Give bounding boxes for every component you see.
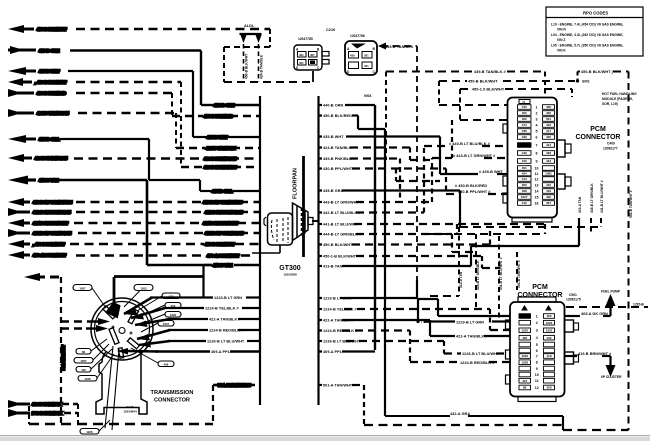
svg-text:409-A PPL: 409-A PPL [211, 350, 231, 354]
svg-text:# 450-B BLK/RED: # 450-B BLK/RED [455, 184, 487, 188]
svg-text:430-B BLK/RED: 430-B BLK/RED [37, 92, 66, 96]
svg-text:433: 433 [169, 295, 174, 299]
RPO CODES box [546, 7, 643, 56]
svg-text:5: 5 [536, 129, 538, 133]
svg-text:450: 450 [522, 183, 527, 187]
right bus [317, 96, 319, 405]
svg-text:420: 420 [546, 386, 551, 390]
wire 444-B LT GRN/BLK [8, 229, 260, 237]
svg-text:351: 351 [364, 54, 369, 58]
svg-text:MODULE (PAGE 99,: MODULE (PAGE 99, [602, 97, 633, 101]
svg-text:435-B WHT: 435-B WHT [207, 136, 228, 140]
svg-text:422-A TAN/BLK #: 422-A TAN/BLK # [323, 319, 355, 323]
svg-text:424-B TAN/BLK: 424-B TAN/BLK [323, 146, 352, 150]
svg-text:422-A TAN/BLK #: 422-A TAN/BLK # [456, 335, 488, 339]
svg-text:444: 444 [546, 143, 551, 147]
svg-text:15: 15 [535, 195, 539, 199]
svg-text:12: 12 [535, 177, 539, 181]
wire 435-B WHT [8, 67, 260, 137]
svg-text:439-B TAN/BLK #: 439-B TAN/BLK # [474, 70, 507, 74]
svg-text:1222: 1222 [546, 329, 553, 333]
svg-text:432-A GRA: 432-A GRA [450, 412, 470, 416]
svg-text:GT300: GT300 [279, 265, 301, 272]
svg-text:2: 2 [536, 321, 538, 325]
svg-text:451: 451 [522, 166, 527, 170]
svg-text:413-B TAN: 413-B TAN [39, 179, 59, 183]
svg-text:, 430-B PPL/WHT: , 430-B PPL/WHT [35, 81, 67, 85]
svg-text:501-B TAN/WHT #: 501-B TAN/WHT # [517, 260, 521, 288]
svg-text:8: 8 [536, 151, 538, 155]
svg-text:7: 7 [536, 354, 538, 358]
wire 442-B LT BLU/BLK right [319, 211, 323, 213]
svg-text:C901: C901 [569, 293, 577, 297]
svg-text:409-A PPL: 409-A PPL [323, 350, 343, 354]
svg-text:466: 466 [164, 363, 169, 367]
svg-text:440-B ORN: 440-B ORN [39, 49, 59, 53]
dashed arrows entering circle from left [61, 318, 110, 332]
svg-text:9004: 9004 [364, 94, 372, 98]
svg-text:12047785: 12047785 [298, 37, 313, 41]
svg-text:451: 451 [364, 64, 369, 68]
501-A right side [319, 385, 629, 430]
svg-text:# 440-B LT BLU/BLK #: # 440-B LT BLU/BLK # [449, 142, 491, 146]
svg-text:474: 474 [522, 123, 527, 127]
right bus wires group [312, 105, 579, 416]
svg-text:400: 400 [546, 111, 551, 115]
svg-text:501-A TAN/WHT #: 501-A TAN/WHT # [218, 384, 251, 388]
svg-text:5: 5 [536, 343, 538, 347]
svg-text:• S004: • S004 [421, 320, 431, 324]
svg-text:467: 467 [310, 53, 315, 57]
fuel pump [565, 304, 611, 316]
svg-text:11: 11 [535, 379, 539, 383]
432-A GRA wire [385, 416, 563, 430]
svg-text:FLOORPAN: FLOORPAN [293, 168, 299, 199]
wire 443-B LT GRN/WHT [8, 198, 260, 206]
connector U1 12047785 [294, 37, 329, 70]
svg-text:9: 9 [536, 367, 538, 371]
svg-text:443: 443 [546, 159, 551, 163]
svg-text:450-B BLK/WHT: 450-B BLK/WHT [468, 80, 498, 84]
svg-text:S001: S001 [582, 79, 590, 83]
svg-text:435-B GRA: 435-B GRA [39, 138, 59, 142]
svg-text:416: 416 [546, 123, 551, 127]
svg-text:12082177: 12082177 [603, 147, 618, 151]
svg-text:427: 427 [522, 379, 527, 383]
svg-text:412: 412 [522, 201, 527, 205]
svg-text:435-B WHT: 435-B WHT [323, 135, 344, 139]
svg-text:440: 440 [522, 105, 527, 109]
svg-text:442-B LT BLU/BLK #: 442-B LT BLU/BLK # [205, 211, 243, 215]
svg-text:1226-B LT BLU/WHT: 1226-B LT BLU/WHT [462, 352, 500, 356]
svg-text:1226: 1226 [86, 430, 93, 434]
svg-text:FUEL PUMP: FUEL PUMP [601, 290, 621, 294]
svg-text:10: 10 [535, 373, 539, 377]
wire 450-B BLK/WHT top [8, 25, 270, 82]
wire 450-1.0 BLK/WHT right [319, 255, 323, 257]
svg-text:443: 443 [522, 159, 527, 163]
svg-text:1057: 1057 [79, 287, 86, 291]
svg-text:# 435-B WHT: # 435-B WHT [479, 170, 503, 174]
svg-text:450-B BLK/WHT: 450-B BLK/WHT [245, 54, 249, 79]
vertical trunk x375 [374, 105, 376, 350]
svg-text:422-A TAN/BLK #: 422-A TAN/BLK # [209, 318, 241, 322]
svg-text:465-A DK GRN: 465-A DK GRN [581, 312, 608, 316]
svg-text:435: 435 [546, 135, 551, 139]
GT300 connector [252, 203, 319, 253]
svg-text:TRANSMISSION: TRANSMISSION [151, 390, 194, 396]
wires into PCM2 [319, 280, 511, 362]
svg-text:450-B BLK/WHT |: 450-B BLK/WHT | [581, 70, 613, 74]
svg-text:444-B LT GRN/BLK #: 444-B LT GRN/BLK # [323, 233, 362, 237]
svg-text:417: 417 [546, 129, 551, 133]
svg-text:419: 419 [546, 189, 551, 193]
svg-text:414: 414 [522, 177, 527, 181]
svg-text:1027: 1027 [521, 195, 528, 199]
svg-text:430-B PPL/WHT #: 430-B PPL/WHT # [323, 167, 356, 171]
wire y82 dashed under ALDL to connector C210 [224, 81, 313, 83]
svg-text:408: 408 [522, 189, 527, 193]
svg-text:450-B BLK/RED: 450-B BLK/RED [323, 114, 352, 118]
svg-text:452: 452 [522, 117, 527, 121]
svg-text:430-B PPL/WHT #: 430-B PPL/WHT # [458, 190, 491, 194]
transmission wires right [150, 298, 260, 352]
svg-text:501: 501 [546, 117, 551, 121]
svg-text:443-B LT GRN/WHT #: 443-B LT GRN/WHT # [33, 201, 73, 205]
svg-text:CONNECTOR: CONNECTOR [154, 398, 190, 404]
svg-text:444-B LT GRN/BLK #: 444-B LT GRN/BLK # [205, 232, 244, 236]
svg-text:9: 9 [536, 159, 538, 163]
svg-text:8: 8 [536, 361, 538, 365]
radiating wires with inward arrowheads [117, 298, 170, 355]
svg-text:16: 16 [535, 201, 539, 205]
svg-text:435-B WHT: 435-B WHT [39, 70, 60, 74]
svg-text:419-B LT GRN/BLK: 419-B LT GRN/BLK [590, 183, 594, 213]
svg-text:2: 2 [536, 111, 538, 115]
svg-text:1223-B LT GRN: 1223-B LT GRN [323, 297, 351, 301]
svg-text:, 450-B BLK/WHT: , 450-B BLK/WHT [33, 243, 65, 247]
svg-text:1020: 1020 [546, 321, 553, 325]
wire 440-B ORN [8, 46, 260, 105]
wire 501-A TAN/WHT left [24, 273, 61, 424]
svg-text:C210: C210 [326, 28, 335, 32]
svg-text:1220-B: 1220-B [633, 303, 644, 307]
svg-text:13: 13 [535, 183, 539, 187]
svg-text:6: 6 [536, 135, 538, 139]
svg-text:435-B GRA: 435-B GRA [212, 190, 232, 194]
svg-text:424-B TAN/BLK: 424-B TAN/BLK [206, 147, 235, 151]
svg-text:C146: C146 [126, 405, 134, 409]
wire 441-B LT BLU/WHT right [312, 220, 319, 222]
svg-text:501-A TAN/WHT #: 501-A TAN/WHT # [323, 384, 356, 388]
svg-text:1053: 1053 [140, 287, 147, 291]
wire 430-B BLK/RED [8, 89, 260, 116]
svg-text:467: 467 [546, 201, 551, 205]
transmission body [96, 352, 147, 414]
wire 430-B PPL/WHT right [319, 167, 323, 169]
ALDL connector [240, 24, 262, 82]
wire 443-B LT GRN/WHT right [319, 201, 323, 203]
wire 439-B PNK/BLK bottom1 [8, 400, 78, 408]
wire 450-1.0 BLK/WHT [8, 251, 252, 259]
svg-text:435-B GRA: 435-B GRA [323, 189, 343, 193]
wires exiting right edge [566, 306, 648, 308]
svg-text:436: 436 [522, 129, 527, 133]
svg-text:I/P CLUSTER: I/P CLUSTER [601, 375, 622, 379]
svg-text:439-B PNK/BLK #: 439-B PNK/BLK # [323, 157, 356, 161]
svg-text:442-B LT BLU/BLK #: 442-B LT BLU/BLK # [33, 211, 71, 215]
svg-text:420: 420 [81, 368, 86, 372]
svg-text:419: 419 [546, 354, 551, 358]
svg-text:424-B TAN/BLK: 424-B TAN/BLK [260, 54, 264, 79]
wire 439-B TAN/BLK top right [386, 71, 473, 73]
svg-text:422: 422 [522, 336, 527, 340]
svg-text:450-1-B BLK/WHT: 450-1-B BLK/WHT [323, 255, 357, 259]
svg-text:1223-B LT GRN: 1223-B LT GRN [456, 320, 484, 324]
svg-text:430-B PPL/WHT #: 430-B PPL/WHT # [204, 166, 237, 170]
svg-text:442-B LT BLU/BLK #: 442-B LT BLU/BLK # [323, 211, 361, 215]
svg-text:450-B BLK/RED: 450-B BLK/RED [204, 115, 233, 119]
svg-text:PCM: PCM [532, 284, 548, 291]
svg-text:441-B LT BLU/WHT: 441-B LT BLU/WHT [33, 222, 69, 226]
svg-text:ALDL: ALDL [244, 24, 255, 28]
svg-text:12034844: 12034844 [123, 410, 137, 414]
svg-text:# 39-B PNK/BLK: # 39-B PNK/BLK [32, 412, 62, 416]
svg-text:419-B LT GRN/BLK: 419-B LT GRN/BLK [476, 260, 480, 290]
wire 439-B PNK/BLK bottom2 [8, 404, 78, 424]
409-A PPL to trunk [342, 350, 375, 352]
wire 435-B GRA [8, 135, 260, 191]
svg-text:450-1.0 BLK/WHT: 450-1.0 BLK/WHT [472, 88, 505, 92]
svg-text:4: 4 [536, 123, 538, 127]
svg-text:413-A TAN: 413-A TAN [578, 196, 582, 213]
svg-text:3: 3 [536, 117, 538, 121]
svg-text:11: 11 [535, 172, 539, 176]
svg-text:CONNECTOR: CONNECTOR [576, 134, 621, 141]
PCM connector 2 (C901) [506, 297, 579, 402]
svg-text:1224-B RED/BLK #: 1224-B RED/BLK # [209, 329, 244, 333]
wire 450-B BLK/WHT top right [439, 80, 467, 82]
svg-text:1226-B LT BLU/WHT: 1226-B LT BLU/WHT [207, 340, 245, 344]
wire 439-B PNK/BLK right [319, 157, 323, 159]
svg-text:PCM: PCM [590, 126, 606, 133]
svg-text:SOR, L19): SOR, L19) [602, 102, 618, 106]
svg-text:436: 436 [546, 105, 551, 109]
svg-text:432: 432 [546, 336, 551, 340]
svg-text:1224-B RED/BLK #: 1224-B RED/BLK # [460, 361, 495, 365]
connector U2 12047786 [345, 34, 377, 75]
svg-text:461: 461 [299, 53, 304, 57]
wire 450-B BLK/WHT to S001 right [578, 71, 581, 73]
svg-text:1: 1 [536, 314, 538, 318]
wire 424-B TAN/BLK [8, 109, 260, 148]
svg-text:439: 439 [522, 135, 527, 139]
wire 450-1.0 BLK/WHT top right [460, 88, 471, 90]
wire 444-B LT GRN/BLK right [319, 233, 323, 235]
svg-text:419-B BRN/WHT #: 419-B BRN/WHT # [578, 352, 612, 356]
svg-text:1: 1 [536, 105, 538, 109]
svg-text:1224-B YEL/BLK #: 1224-B YEL/BLK # [323, 308, 357, 312]
svg-text:L04 - ENGINE, 4.3L (262 CID) V: L04 - ENGINE, 4.3L (262 CID) V6 GAS ENGI… [551, 33, 623, 37]
svg-text:3: 3 [536, 329, 538, 333]
svg-text:450-B BLK/WHT: 450-B BLK/WHT [323, 243, 353, 247]
svg-text:1220: 1220 [521, 329, 528, 333]
svg-text:439-B PNK/BLK: 439-B PNK/BLK [32, 403, 61, 407]
svg-text:4: 4 [536, 336, 538, 340]
svg-text:443-B LT GRN/WHT #: 443-B LT GRN/WHT # [203, 201, 243, 205]
svg-text:HOT FUEL HANDLING: HOT FUEL HANDLING [602, 92, 637, 96]
svg-text:409: 409 [171, 304, 176, 308]
transmission ovals [73, 285, 181, 435]
wire 424-B TAN/BLK right [319, 146, 323, 148]
svg-text:6: 6 [536, 349, 538, 353]
vertical trunk x385 [384, 129, 386, 416]
svg-text:448: 448 [546, 151, 551, 155]
svg-text:415: 415 [546, 183, 551, 187]
svg-text:12082175: 12082175 [566, 298, 581, 302]
wire 441-B LT BLU/WHT [8, 219, 260, 227]
svg-text:L19 - ENGINE, 7.4L (454 CID) V: L19 - ENGINE, 7.4L (454 CID) V8 GAS ENGI… [551, 23, 623, 27]
wire 413-B TAN right [319, 265, 323, 267]
wire 450-B BLK/WHT right [319, 243, 323, 245]
svg-text:1228: 1228 [521, 360, 528, 364]
svg-text:1220: 1220 [170, 313, 177, 317]
wire 439-B PNK/BLK [8, 154, 260, 162]
svg-text:VIN K: VIN K [557, 49, 566, 53]
svg-text:501-A TAN/WHT: 501-A TAN/WHT [62, 345, 66, 370]
transmission connector C146 [91, 298, 153, 360]
PCM2 pin grid [519, 314, 555, 390]
svg-text:441-B LT BLU/WHT: 441-B LT BLU/WHT [323, 223, 359, 227]
floorpan line [302, 156, 305, 257]
svg-text:413-B TAN: 413-B TAN [323, 265, 343, 269]
svg-text:465: 465 [546, 314, 551, 318]
left bus [259, 96, 261, 405]
bottom left dashed rail [29, 385, 260, 424]
svg-text:439-B TAN/BLK: 439-B TAN/BLK [385, 45, 414, 49]
svg-text:451: 451 [299, 61, 304, 65]
svg-text:424-B TAN/BLK #: 424-B TAN/BLK # [37, 112, 70, 116]
svg-text:441-B LT BLU/WHT #: 441-B LT BLU/WHT # [499, 257, 503, 290]
svg-text:450-B BLK/WHT: 450-B BLK/WHT [205, 243, 235, 247]
svg-text:444-B LT GRN/BLK #: 444-B LT GRN/BLK # [33, 232, 72, 236]
wire 413-B TAN [8, 176, 260, 266]
svg-text:86: 86 [523, 386, 527, 390]
svg-text:1228: 1228 [84, 377, 91, 381]
svg-text:439: 439 [350, 54, 355, 58]
svg-text:1224-B RED/BLK #: 1224-B RED/BLK # [323, 329, 358, 333]
wire 430-B PPL/WHT [8, 78, 260, 167]
svg-text:C409: C409 [607, 142, 615, 146]
wire 442-B LT BLU/BLK [8, 208, 260, 216]
svg-text:450-B BLK/WHT: 450-B BLK/WHT [37, 28, 67, 32]
svg-text:1057: 1057 [80, 359, 87, 363]
svg-text:439-B PNK/BLK #: 439-B PNK/BLK # [35, 157, 68, 161]
svg-text:450-1.0 BLK/WHT: 450-1.0 BLK/WHT [207, 254, 240, 258]
wire 435-B GRA right [319, 189, 323, 191]
svg-text:L05 - ENGINE, 5.7L (350 CID) V: L05 - ENGINE, 5.7L (350 CID) V8 GAS ENGI… [551, 44, 623, 48]
svg-text:439-B PNK/BLK #: 439-B PNK/BLK # [204, 157, 237, 161]
svg-text:12: 12 [535, 386, 539, 390]
svg-text:# 443-B LT GRN/WHT #: # 443-B LT GRN/WHT # [453, 154, 496, 158]
svg-text:VIN N: VIN N [557, 28, 566, 32]
PCM connector 1 (C409) [503, 98, 571, 223]
svg-text:441-B LT BLU/WHT: 441-B LT BLU/WHT [203, 222, 239, 226]
thick wire from 413 line down into circle with arrow [105, 265, 212, 318]
wire 435-B WHT right [319, 135, 323, 137]
svg-text:CONNECTOR: CONNECTOR [518, 292, 563, 299]
oval connector lines [91, 288, 165, 431]
S001 junction [576, 79, 579, 82]
wire 450-B BLK/RED right [319, 114, 323, 116]
svg-text:443-B LT GRN/WHT #: 443-B LT GRN/WHT # [323, 201, 363, 205]
svg-text:424: 424 [522, 172, 527, 176]
wire 440-B ORN right [319, 104, 323, 106]
svg-text:440-B ORN: 440-B ORN [323, 104, 343, 108]
svg-text:413-A TAN: 413-A TAN [459, 271, 463, 288]
svg-text:1057: 1057 [163, 322, 170, 326]
svg-text:450: 450 [522, 111, 527, 115]
maze below PCM1 [428, 218, 601, 320]
svg-text:501-B TAN/WHT #: 501-B TAN/WHT # [629, 190, 633, 218]
svg-text:450-1-B BLK/WHT: 450-1-B BLK/WHT [33, 254, 67, 258]
svg-text:1226-B LT BLU/WHT: 1226-B LT BLU/WHT [323, 340, 361, 344]
long right vertical [628, 72, 630, 431]
svg-text:441-B LT BLU/WHT #: 441-B LT BLU/WHT # [600, 180, 604, 213]
svg-text:RPO CODES: RPO CODES [583, 11, 608, 16]
svg-text:VIN Z: VIN Z [557, 38, 565, 42]
svg-text:430: 430 [546, 195, 551, 199]
svg-text:413-B TAN: 413-B TAN [213, 264, 233, 268]
svg-text:14: 14 [535, 189, 539, 193]
wire 450-B BLK/WHT mid [8, 240, 260, 248]
extra maze verticals [451, 120, 453, 158]
svg-text:10: 10 [535, 166, 539, 170]
PCM1 pin grid [518, 105, 555, 206]
I/P cluster [565, 356, 611, 367]
svg-text:1061: 1061 [545, 172, 552, 176]
wire 439-B TAN/BLK from U2 [378, 43, 417, 281]
svg-text:440-B ORN: 440-B ORN [214, 104, 234, 108]
top right wires [386, 72, 629, 431]
svg-text:12020288: 12020288 [283, 273, 297, 277]
bottom gray band [0, 435, 650, 437]
svg-text:449: 449 [522, 151, 527, 155]
svg-text:1226: 1226 [521, 354, 528, 358]
svg-text:7: 7 [536, 143, 538, 147]
svg-text:86: 86 [82, 350, 86, 354]
svg-text:12047786: 12047786 [350, 34, 365, 38]
svg-text:1224-B YEL/BLK #: 1224-B YEL/BLK # [205, 307, 239, 311]
svg-text:1223-B LT GRN: 1223-B LT GRN [214, 296, 242, 300]
